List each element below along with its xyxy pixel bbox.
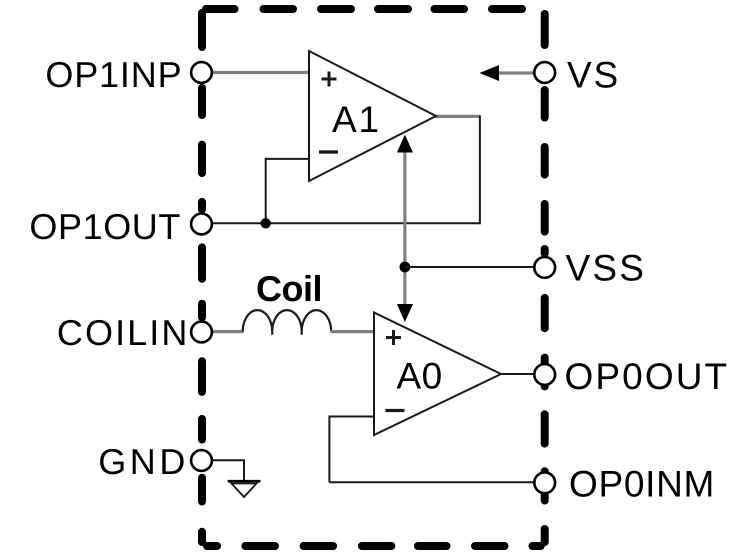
wire VS arrow line — [499, 71, 536, 74]
op-amp A1 — [309, 51, 436, 181]
svg-text:VS: VS — [567, 55, 620, 96]
op-amp A1 plus sign — [322, 72, 337, 87]
svg-text:OP0OUT: OP0OUT — [565, 356, 730, 397]
wire A1 output stub — [435, 115, 480, 118]
svg-text:OP1OUT: OP1OUT — [29, 206, 181, 247]
wire COILIN to coil — [212, 330, 244, 333]
pin OP0OUT — [534, 364, 555, 385]
wire A1 minus input vertical down to OP1OUT net — [265, 158, 267, 223]
svg-text:COILIN: COILIN — [57, 312, 190, 353]
arrow head VS pointing left — [480, 65, 500, 81]
dashed IC boundary right edge — [541, 14, 549, 542]
dashed IC boundary bottom edge — [207, 542, 541, 550]
wire OP1INP to A1 plus input — [212, 71, 309, 74]
junction dot on OP1OUT net — [261, 218, 271, 228]
svg-text:OP0INM: OP0INM — [569, 463, 715, 504]
svg-text:Coil: Coil — [256, 268, 322, 309]
pin OP1INP — [191, 62, 212, 83]
pin OP1OUT — [191, 214, 212, 235]
wire A0 minus input horizontal — [329, 416, 374, 418]
junction dot on VSS net — [400, 262, 411, 273]
svg-text:VSS: VSS — [566, 248, 647, 289]
inductor Coil — [243, 310, 332, 332]
op-amp A0 minus sign — [386, 409, 405, 412]
wire A1 feedback vertical — [479, 115, 481, 224]
pin VSS — [534, 257, 555, 278]
signal arrow line A1 to A0 — [403, 149, 406, 306]
dashed IC boundary top edge — [206, 5, 522, 13]
svg-text:GND: GND — [98, 441, 189, 482]
ground symbol — [228, 480, 261, 483]
wire A1 minus input horizontal — [266, 158, 309, 160]
wire A0 minus feedback vertical — [328, 416, 330, 483]
svg-text:OP1INP: OP1INP — [45, 54, 182, 95]
wire coil to A0 plus input — [331, 330, 375, 333]
signal arrow head up — [397, 135, 413, 153]
svg-text:A0: A0 — [397, 356, 443, 397]
wire OP0INM net — [329, 481, 536, 483]
op-amp A0 plus sign — [386, 330, 401, 345]
wire VSS net — [405, 266, 536, 268]
signal arrow head down — [397, 304, 413, 322]
op-amp A1 minus sign — [319, 150, 338, 153]
pin GND — [191, 450, 212, 471]
pin OP0INM — [534, 472, 555, 493]
wire GND to ground symbol — [212, 460, 244, 480]
wire OP1OUT horizontal net — [212, 222, 480, 224]
svg-text:A1: A1 — [332, 99, 381, 140]
op-amp A0 — [374, 313, 501, 436]
wire A0 output to OP0OUT — [500, 373, 536, 375]
dashed IC boundary left edge — [198, 13, 206, 542]
pin COILIN — [191, 322, 212, 343]
pin VS — [534, 62, 555, 83]
